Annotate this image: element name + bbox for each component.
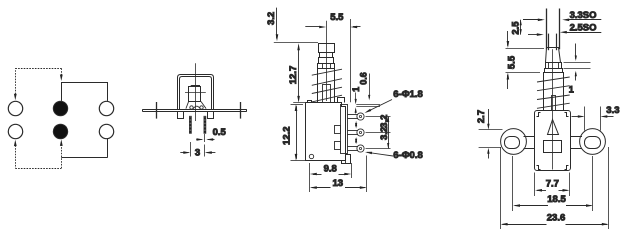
metal frame outer wall bbox=[178, 75, 214, 110]
PCB mounting plate double line bbox=[143, 109, 247, 111]
wire: top dashed link pin1-pin2 bbox=[15, 68, 17, 97]
svg-text:18.5: 18.5 bbox=[547, 194, 566, 205]
threaded bushing bbox=[318, 69, 335, 103]
right side pin bbox=[240, 102, 242, 119]
svg-text:0.5: 0.5 bbox=[213, 127, 227, 138]
threaded bushing bbox=[544, 73, 564, 111]
svg-text:2.5SO: 2.5SO bbox=[570, 22, 597, 33]
plunger collar 1 bbox=[320, 53, 333, 58]
terminal 1 lug bbox=[347, 114, 358, 116]
frame right foot bbox=[208, 112, 214, 119]
plunger collar nut bbox=[546, 63, 562, 69]
direction triangle bbox=[548, 120, 559, 135]
left side pin bbox=[156, 102, 158, 119]
dim 9.8 bbox=[309, 163, 311, 192]
svg-text:3.2: 3.2 bbox=[266, 12, 277, 25]
contact pin 6 (bottom-right) bbox=[99, 124, 113, 138]
dim 0.6 ext lines bbox=[356, 104, 380, 106]
contact pin 1 (top-left) bbox=[8, 101, 22, 115]
corner mark TL bbox=[537, 113, 541, 117]
svg-text:1: 1 bbox=[569, 85, 574, 95]
centerline bbox=[195, 63, 197, 121]
base top-right tab bbox=[338, 98, 345, 103]
svg-text:7.7: 7.7 bbox=[546, 179, 559, 190]
svg-text:3: 3 bbox=[195, 148, 200, 159]
right mounting ear bbox=[580, 129, 606, 155]
svg-text:13: 13 bbox=[333, 178, 344, 189]
dim 3 pin spacing bbox=[190, 142, 192, 157]
base bottom-right foot bbox=[342, 155, 351, 164]
plunger ball left bbox=[190, 106, 193, 109]
svg-text:2.5: 2.5 bbox=[510, 21, 521, 35]
right ear neck bbox=[570, 136, 582, 138]
wire: bottom dashed link pin4-pin5 bbox=[15, 143, 17, 169]
svg-text:1: 1 bbox=[351, 87, 361, 92]
terminal strip bbox=[341, 105, 348, 154]
plunger flare left bbox=[186, 102, 189, 109]
svg-text:23.6: 23.6 bbox=[547, 212, 566, 223]
inner shaft slot bbox=[323, 85, 331, 103]
left mounting ear bbox=[501, 129, 527, 155]
dim 13 bbox=[366, 156, 368, 193]
centerline bbox=[552, 49, 554, 169]
dim 23.6 bbox=[500, 147, 502, 229]
svg-text:0.6: 0.6 bbox=[359, 72, 369, 85]
corner mark TR bbox=[565, 113, 569, 117]
bushing flange nut bbox=[318, 64, 335, 69]
svg-text:12.7: 12.7 bbox=[288, 66, 299, 85]
strip tab 1 bbox=[335, 126, 341, 134]
inter-terminal arrows bbox=[355, 121, 357, 127]
strip tab 2 bbox=[335, 142, 341, 150]
svg-text:9.8: 9.8 bbox=[324, 164, 337, 175]
plunger body bbox=[189, 87, 201, 102]
dim 7.7 bbox=[534, 173, 536, 197]
svg-text:12.2: 12.2 bbox=[282, 126, 293, 145]
svg-text:5.5: 5.5 bbox=[507, 55, 518, 69]
base body bbox=[306, 103, 346, 161]
svg-text:6-Φ0.8: 6-Φ0.8 bbox=[393, 150, 422, 161]
body window bbox=[544, 141, 562, 153]
corner mark BR bbox=[565, 166, 569, 170]
svg-text:2.7: 2.7 bbox=[476, 110, 487, 123]
left ear neck bbox=[524, 136, 536, 138]
corner mark BL bbox=[537, 166, 541, 170]
dim 0.5 pin width bbox=[204, 134, 206, 142]
plunger dome bbox=[193, 106, 200, 109]
base bottom-left hole bbox=[309, 154, 313, 158]
wire: bottom solid link pin5-pin6 bbox=[61, 157, 107, 159]
contact pin 3 (top-right) bbox=[99, 101, 113, 115]
svg-text:6-Φ1.8: 6-Φ1.8 bbox=[393, 89, 422, 100]
collar flange bbox=[545, 69, 563, 73]
terminal 2 lug bbox=[347, 130, 358, 132]
pin 2 right bbox=[204, 116, 206, 133]
pin inner edges bbox=[548, 34, 550, 51]
plunger collar 2 bbox=[319, 58, 334, 64]
metal frame inner wall bbox=[180, 77, 212, 110]
plunger cap bbox=[319, 44, 335, 53]
contact pin 2 (top-middle common, filled) bbox=[53, 101, 67, 115]
pin outer edges bbox=[546, 9, 548, 50]
terminal pitch ext+dim lines bbox=[366, 116, 391, 118]
dim 18.5 bbox=[512, 156, 514, 211]
svg-text:5.5: 5.5 bbox=[330, 12, 344, 23]
plunger ball right bbox=[200, 106, 203, 109]
inner shaft slot bbox=[552, 96, 556, 111]
svg-text:3.3: 3.3 bbox=[606, 105, 619, 116]
wire: top solid link pin2-pin3 bbox=[61, 82, 63, 101]
plunger cap bbox=[191, 86, 200, 87]
centerline bbox=[326, 21, 328, 101]
contact pin 4 (bottom-left) bbox=[8, 124, 22, 138]
terminal 3 lug bbox=[347, 146, 358, 148]
plunger cap bbox=[546, 48, 561, 63]
contact pin 5 (bottom-middle common, filled) bbox=[53, 124, 67, 138]
plunger mid line bbox=[185, 92, 206, 94]
switch body bbox=[535, 111, 571, 171]
pin 1 left bbox=[189, 116, 191, 133]
plunger flare right bbox=[201, 102, 206, 109]
base top-left tab bbox=[308, 101, 312, 103]
frame left foot bbox=[178, 112, 184, 119]
